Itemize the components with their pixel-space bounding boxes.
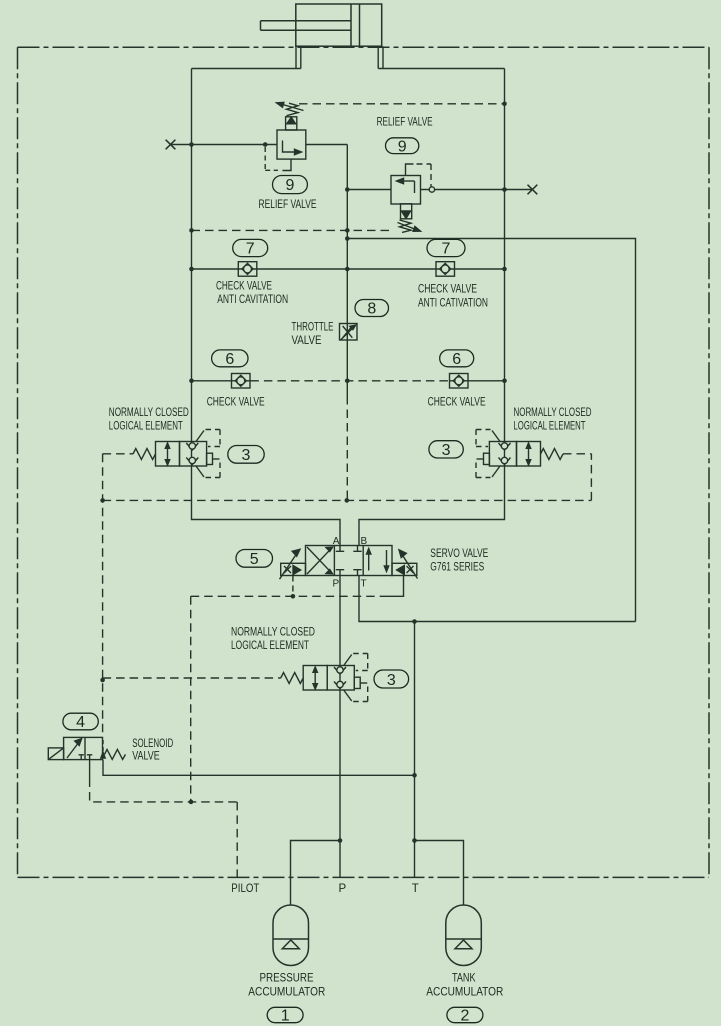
- svg-text:6: 6: [452, 351, 461, 368]
- servo valve crossed arrows (left cell): [307, 547, 333, 574]
- svg-text:PILOT: PILOT: [231, 883, 259, 895]
- node solenoid outlet rail 775: [412, 773, 417, 778]
- svg-text:NORMALLY CLOSED: NORMALLY CLOSED: [514, 407, 592, 419]
- svg-text:B: B: [361, 536, 368, 547]
- balloon 1: [267, 1007, 303, 1022]
- svg-text:RELIEF VALVE: RELIEF VALVE: [377, 117, 433, 129]
- svg-text:3: 3: [242, 447, 251, 464]
- balloon numbers: [76, 139, 469, 1025]
- node check rail 269 centre: [345, 267, 350, 272]
- item balloons (stadium outlines): [63, 138, 483, 1023]
- svg-text:7: 7: [442, 241, 451, 258]
- throttle valve 8: [340, 324, 358, 341]
- svg-text:3: 3: [387, 672, 396, 689]
- servo valve 5 body: [306, 546, 393, 576]
- svg-text:T: T: [412, 883, 419, 895]
- svg-text:PRESSURE: PRESSURE: [260, 973, 314, 985]
- wire from rod-side port to left bus: [192, 68, 301, 70]
- wire P column: [339, 576, 341, 878]
- svg-text:7: 7: [246, 241, 255, 258]
- svg-text:5: 5: [250, 551, 259, 568]
- node pilot dashed top at right bus: [502, 102, 507, 107]
- pilot tap circle relief right: [429, 187, 434, 192]
- node T rail 621: [412, 619, 417, 624]
- svg-text:3: 3: [442, 442, 451, 459]
- balloon 3 right: [429, 441, 463, 458]
- svg-text:LOGICAL ELEMENT: LOGICAL ELEMENT: [231, 640, 309, 652]
- arrowhead inside relief 9 right: [397, 178, 404, 183]
- servo valve blocked ports (centre cell): [336, 546, 362, 576]
- node servo pilot 596: [291, 594, 296, 599]
- svg-text:ACCUMULATOR: ACCUMULATOR: [426, 987, 503, 999]
- balloon 7 right: [427, 239, 465, 256]
- wire solenoid left port: [89, 760, 91, 779]
- svg-text:CHECK VALVE: CHECK VALVE: [418, 284, 477, 296]
- logical element 3 bottom: [281, 654, 368, 702]
- servo pilot link to right solenoid: [386, 576, 404, 597]
- svg-text:ACCUMULATOR: ACCUMULATOR: [248, 987, 325, 999]
- pilot dashed segment between check valves 6: [250, 380, 449, 382]
- node pilot rail 500 centre: [345, 498, 350, 503]
- svg-text:P: P: [339, 883, 347, 895]
- node T accumulator branch: [412, 838, 417, 843]
- servo valve left proportional solenoid: [280, 549, 306, 579]
- svg-text:NORMALLY CLOSED: NORMALLY CLOSED: [231, 626, 315, 638]
- arrowhead inside relief 9 left: [295, 149, 302, 154]
- hydraulic cylinder: [261, 4, 382, 46]
- servo pilot dashed line y=596: [191, 595, 386, 597]
- pressure accumulator 1: [273, 905, 309, 966]
- wire T column to right rail: [359, 576, 636, 622]
- balloon 5: [236, 550, 273, 568]
- balloon 9 left: [273, 176, 308, 194]
- svg-text:9: 9: [398, 139, 407, 156]
- wire relief line right (outlet) to plugged port: [421, 189, 533, 191]
- balloon 3 bottom: [374, 670, 409, 688]
- pilot dashed right riser to logic element spring: [563, 454, 591, 501]
- svg-text:TANK: TANK: [452, 973, 476, 985]
- svg-text:CHECK VALVE: CHECK VALVE: [207, 397, 265, 409]
- pilot dashed drop x=190.7: [190, 596, 192, 802]
- pilot dashed drain to PILOT port: [90, 779, 238, 878]
- wire vertical x=347: [346, 145, 348, 397]
- balloon 3 left: [228, 446, 264, 464]
- wire left vertical bus, A-port link: [192, 69, 341, 546]
- node rail y=239 at x=347: [345, 236, 350, 241]
- cylinder port stubs: [296, 46, 383, 68]
- logical element 3 left: [133, 430, 220, 478]
- wire vertical x=347 dashed lower part: [346, 396, 348, 500]
- svg-text:6: 6: [225, 351, 234, 368]
- svg-text:CHECK VALVE: CHECK VALVE: [428, 397, 486, 409]
- svg-text:CHECK VALVE: CHECK VALVE: [216, 280, 272, 292]
- wire upper right rail to far right drop: [347, 239, 635, 622]
- solenoid valve 4: [48, 737, 125, 759]
- check valve 6 left: [232, 374, 251, 389]
- svg-text:THROTTLE: THROTTLE: [292, 321, 334, 333]
- plugged port X (right): [528, 185, 538, 195]
- svg-text:VALVE: VALVE: [132, 751, 160, 763]
- balloon 7 left: [233, 239, 268, 256]
- relief valve 9 left: [265, 102, 306, 170]
- pilot line (dashed) relief left spring to right bus: [299, 103, 505, 105]
- node check rail 381 left: [189, 379, 194, 384]
- wire check-valve rail y=269: [192, 268, 505, 270]
- relief valve 9 right: [391, 164, 431, 232]
- pilot dashed left drop to solenoid area: [103, 454, 133, 738]
- svg-text:2: 2: [460, 1007, 469, 1024]
- svg-text:SOLENOID: SOLENOID: [132, 738, 173, 750]
- node pilot 680: [100, 678, 105, 683]
- balloon 9 right: [386, 138, 419, 154]
- node relief-right inlet: [345, 187, 350, 192]
- check valve 6 right: [450, 374, 469, 389]
- servo port letters: [333, 536, 368, 590]
- node check rail 381 centre: [345, 379, 350, 384]
- node check rail 381 right: [502, 379, 507, 384]
- servo pilot dashed drop from left solenoid: [292, 576, 294, 597]
- wire solenoid outlet to tank drop: [103, 760, 415, 776]
- node check rail 269 left: [189, 267, 194, 272]
- svg-text:9: 9: [286, 177, 295, 194]
- check valve 7 left (anti cavitation): [238, 262, 256, 277]
- node dashed pilot at x=347: [345, 228, 350, 233]
- pilot network dashed rail y=500: [103, 499, 592, 501]
- node check rail 269 right: [502, 267, 507, 272]
- wire relief valve 9 left outlet: [306, 144, 348, 146]
- enclosure border (dash-dot): [18, 47, 710, 877]
- node relief-right outlet on right bus: [502, 187, 507, 192]
- balloon 8: [355, 300, 389, 317]
- node pilot rail 500 left corner: [100, 498, 105, 503]
- svg-text:VALVE: VALVE: [292, 335, 322, 347]
- logical element 3 right: [476, 430, 563, 478]
- wire tank drop x=414.5: [414, 622, 416, 878]
- svg-text:RELIEF VALVE: RELIEF VALVE: [259, 199, 317, 211]
- node dashed pilot left start: [189, 228, 194, 233]
- wire branch to tank accumulator: [415, 841, 464, 906]
- balloon 6 left: [212, 350, 248, 367]
- node P accumulator branch: [338, 838, 343, 843]
- balloon 4: [63, 713, 98, 730]
- wire from cap-side port to right bus: [378, 68, 504, 70]
- svg-text:LOGICAL ELEMENT: LOGICAL ELEMENT: [109, 421, 183, 433]
- svg-text:4: 4: [76, 714, 85, 731]
- svg-text:1: 1: [281, 1007, 290, 1024]
- svg-text:LOGICAL ELEMENT: LOGICAL ELEMENT: [514, 421, 586, 433]
- wire branch to pressure accumulator: [291, 841, 341, 906]
- svg-text:G761 SERIES: G761 SERIES: [430, 561, 484, 573]
- servo valve parallel arrows (right cell): [367, 549, 389, 572]
- wire relief line right (inlet): [347, 189, 391, 191]
- wire relief line left: [171, 144, 278, 146]
- balloon 6 right: [440, 350, 474, 367]
- tank accumulator 2: [446, 905, 482, 966]
- svg-text:8: 8: [367, 301, 376, 318]
- pilot line (dashed) to relief right spring: [192, 229, 395, 231]
- balloon 2: [447, 1007, 483, 1022]
- svg-text:ANTI CAVITATION: ANTI CAVITATION: [217, 294, 288, 306]
- svg-text:T: T: [361, 579, 367, 590]
- pilot dashed line to bottom logic element spring: [103, 677, 281, 679]
- plugged port X (left): [166, 140, 176, 150]
- check valve 7 right (anti cativation): [436, 262, 455, 277]
- servo valve right proportional solenoid: [392, 550, 418, 579]
- svg-text:A: A: [333, 536, 340, 547]
- svg-text:NORMALLY CLOSED: NORMALLY CLOSED: [109, 407, 189, 419]
- node relief-left inlet: [189, 142, 194, 147]
- wire right vertical bus, B-port link: [359, 69, 505, 546]
- node pilot drain 802: [189, 800, 194, 805]
- svg-text:SERVO VALVE: SERVO VALVE: [430, 548, 488, 560]
- node relief-left pilot tap: [263, 142, 268, 147]
- wire check-valve rail y=380.8 (solid ends): [192, 380, 505, 382]
- svg-text:ANTI CATIVATION: ANTI CATIVATION: [418, 298, 488, 310]
- svg-text:P: P: [333, 579, 340, 590]
